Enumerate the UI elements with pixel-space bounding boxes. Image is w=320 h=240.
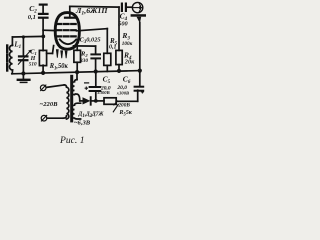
svg-text:Л1,6Ж1П: Л1,6Ж1П [75,7,108,16]
svg-text:20к: 20к [124,60,136,66]
svg-text:330: 330 [79,58,88,64]
svg-text:~220В: ~220В [40,101,59,108]
svg-text:Рис. 1: Рис. 1 [59,135,85,145]
svg-text:0,1: 0,1 [109,45,117,51]
svg-text:100к: 100к [122,41,133,47]
svg-text:х300В: х300В [116,91,129,96]
svg-text:~6,3В: ~6,3В [74,120,91,127]
svg-text:0,1: 0,1 [28,14,36,21]
svg-text:+200В: +200В [115,102,130,108]
svg-text:500: 500 [118,21,128,27]
svg-text:510: 510 [29,62,37,68]
svg-text:х300В: х300В [96,90,109,95]
